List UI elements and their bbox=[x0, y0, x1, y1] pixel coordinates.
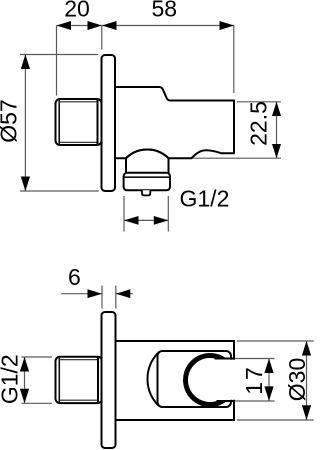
svg-text:20: 20 bbox=[64, 0, 90, 22]
arrow 58 left bbox=[102, 21, 117, 30]
wall flange (side) bbox=[102, 55, 116, 191]
slot lip bottom bbox=[217, 400, 235, 402]
bracket rounded rect bbox=[158, 351, 232, 407]
bracket back bulge bbox=[147, 354, 157, 405]
ext line dia57 top bbox=[20, 54, 98, 56]
thread root line top bbox=[59, 359, 98, 361]
thread root line top bbox=[59, 101, 97, 103]
svg-text:22.5: 22.5 bbox=[246, 101, 272, 146]
wall flange (bottom view) bbox=[102, 312, 116, 448]
holder body (bottom view) bbox=[116, 341, 235, 420]
arrow 6 pointing right bbox=[88, 289, 103, 298]
thread chamfer line bbox=[58, 100, 60, 145]
outlet boss sides bbox=[125, 158, 127, 173]
ext line 6 right bbox=[115, 286, 117, 309]
arrow dia30 down bbox=[302, 405, 311, 420]
dim line 22.5 bbox=[276, 102, 278, 158]
ext line G1/2 bottom-view top bbox=[22, 356, 53, 358]
ext line between 20 and 58 bbox=[101, 26, 103, 50]
svg-text:Ø57: Ø57 bbox=[0, 99, 21, 142]
arrow 58 right bbox=[220, 21, 235, 30]
nut chamfer line bbox=[125, 176, 170, 178]
arrow 22.5 down bbox=[272, 144, 281, 158]
thread root line bottom bbox=[59, 399, 98, 401]
washer line bbox=[97, 357, 99, 403]
body of holder (side view) bbox=[115, 87, 234, 158]
svg-text:58: 58 bbox=[152, 0, 178, 22]
dim line 17 bbox=[268, 359, 270, 402]
ext line 22.5 top bbox=[237, 101, 281, 103]
dim line dia30 bbox=[306, 341, 308, 420]
svg-text:G1/2: G1/2 bbox=[0, 354, 23, 404]
arrow 17 up bbox=[264, 359, 273, 374]
arrow 17 down bbox=[264, 386, 273, 401]
ext line right of 58 bbox=[233, 26, 235, 94]
slot lip top bbox=[215, 358, 235, 360]
arrowheads bottom view bbox=[20, 289, 311, 420]
dim line dia57 bbox=[24, 55, 26, 192]
svg-text:G1/2: G1/2 bbox=[180, 186, 230, 212]
svg-text:17: 17 bbox=[241, 365, 267, 395]
ext line dia30 top bbox=[237, 340, 314, 342]
thread chamfer line bbox=[58, 357, 60, 402]
ext line G1/2 left bbox=[123, 196, 125, 232]
thread root line bottom bbox=[59, 141, 97, 143]
ext line G1/2 right bbox=[167, 196, 169, 232]
dim line 20/58 bbox=[57, 25, 235, 27]
arrow 6 pointing left bbox=[116, 289, 131, 298]
wall thread connector (bottom view) bbox=[56, 357, 103, 403]
arrow G1/2 up bbox=[20, 357, 29, 372]
arrow G1/2 down bbox=[20, 389, 29, 404]
ext line 6 left bbox=[101, 286, 103, 309]
arrow dia57 up bbox=[21, 55, 30, 70]
ext line dia57 bottom bbox=[20, 190, 99, 192]
dim leader 6 right bbox=[116, 293, 133, 295]
wall thread connector bbox=[56, 99, 102, 145]
svg-text:6: 6 bbox=[68, 264, 81, 290]
dome arc of outlet boss bbox=[126, 149, 169, 158]
ext line 17 top bbox=[235, 358, 275, 360]
arrowheads top view bbox=[21, 21, 281, 225]
outlet nipple bbox=[142, 190, 150, 195]
ext line 17 bottom bbox=[235, 400, 275, 402]
outlet nut bbox=[124, 173, 170, 191]
arrow 20 right bbox=[88, 21, 103, 30]
ext line dia30 bottom bbox=[237, 419, 314, 421]
svg-text:Ø30: Ø30 bbox=[284, 358, 310, 401]
C-shaped cradle ring bbox=[183, 353, 227, 407]
washer line bbox=[97, 99, 99, 145]
ext line left of 20 bbox=[56, 26, 58, 96]
arrow dia30 up bbox=[302, 341, 311, 356]
arrow G1/2 left bbox=[124, 216, 139, 225]
ext line G1/2 bottom-view bottom bbox=[22, 402, 53, 404]
arrow G1/2 right bbox=[154, 216, 169, 225]
ext line 22.5 bottom bbox=[192, 157, 281, 159]
dim line G1/2 bbox=[124, 219, 168, 221]
dim line G1/2 bottom view bbox=[24, 357, 26, 403]
slot opening erase bbox=[229, 360, 238, 400]
arrow 20 left bbox=[57, 21, 72, 30]
dim leader 6 left bbox=[61, 293, 102, 295]
arrow dia57 down bbox=[21, 177, 30, 192]
arrow 22.5 up bbox=[272, 102, 281, 116]
